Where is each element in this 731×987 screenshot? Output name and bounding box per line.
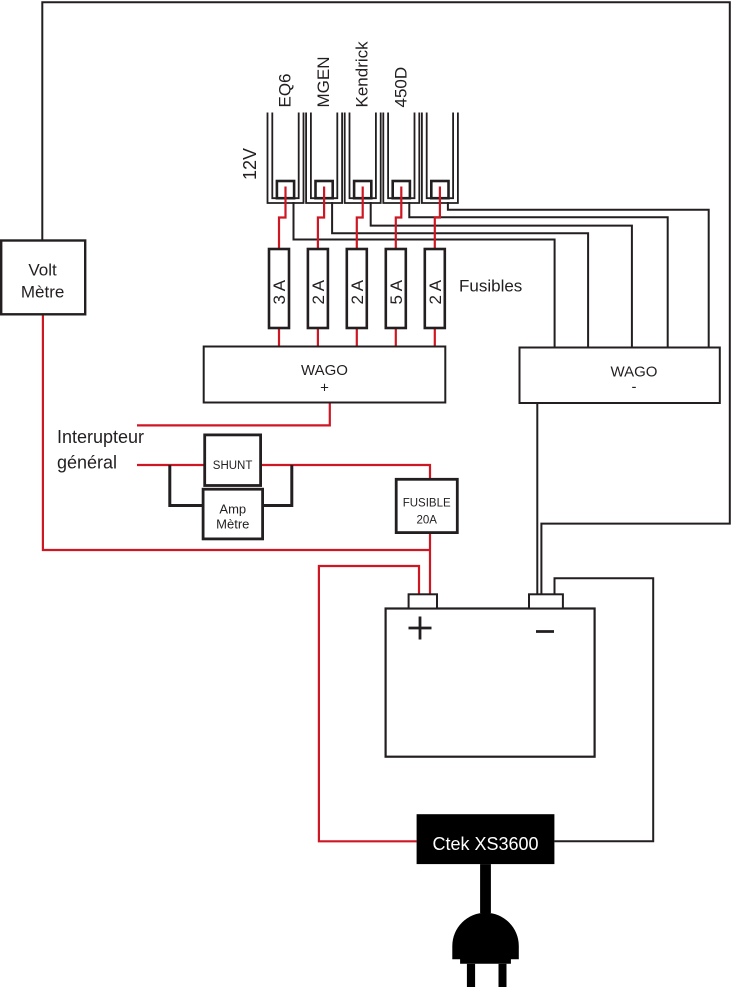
- svg-text:EQ6: EQ6: [276, 73, 295, 107]
- svg-text:Interupteur: Interupteur: [57, 427, 144, 447]
- svg-text:450D: 450D: [391, 67, 410, 108]
- svg-text:Mètre: Mètre: [21, 282, 64, 301]
- svg-text:Fusibles: Fusibles: [459, 277, 522, 296]
- svg-text:Mètre: Mètre: [216, 517, 249, 532]
- svg-text:SHUNT: SHUNT: [213, 460, 253, 472]
- svg-text:20A: 20A: [416, 515, 437, 527]
- svg-text:Ctek XS3600: Ctek XS3600: [432, 834, 538, 854]
- svg-text:+: +: [320, 380, 329, 397]
- svg-text:3 A: 3 A: [270, 279, 289, 304]
- svg-text:Kendrick: Kendrick: [353, 41, 372, 108]
- svg-text:Amp: Amp: [219, 502, 246, 517]
- svg-text:2 A: 2 A: [426, 279, 445, 304]
- svg-text:12V: 12V: [240, 148, 260, 180]
- svg-text:Volt: Volt: [28, 260, 57, 279]
- svg-text:MGEN: MGEN: [314, 57, 333, 108]
- svg-text:-: -: [632, 379, 637, 396]
- svg-text:général: général: [57, 453, 117, 473]
- svg-text:WAGO: WAGO: [301, 362, 348, 379]
- svg-text:2 A: 2 A: [309, 279, 328, 304]
- svg-text:FUSIBLE: FUSIBLE: [403, 497, 451, 509]
- svg-text:2 A: 2 A: [348, 279, 367, 304]
- svg-text:5 A: 5 A: [387, 279, 406, 304]
